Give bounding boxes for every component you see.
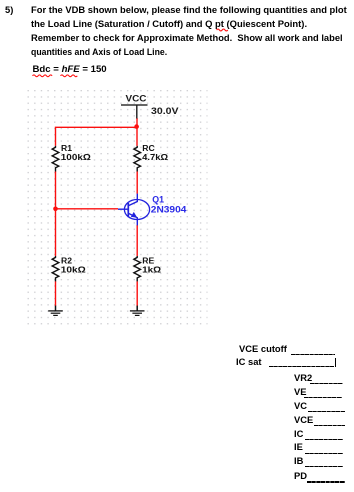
wire: emitter to RE top <box>136 225 138 256</box>
svg-text:2N3904: 2N3904 <box>151 205 187 215</box>
paragraph line 4 <box>31 47 167 58</box>
answer blank: VE <box>294 387 307 398</box>
wire: RC bottom to collector <box>136 171 138 193</box>
answer blank: VCE cutoff <box>239 344 287 355</box>
svg-text:Q1: Q1 <box>152 194 164 204</box>
answer blank: IE <box>294 442 303 453</box>
svg-text:VCC: VCC <box>126 93 148 103</box>
power symbol VCC <box>121 93 148 118</box>
svg-text:30.0V: 30.0V <box>151 106 179 116</box>
answer blank: IB <box>294 456 303 467</box>
wire: VCC stem red part <box>136 118 138 127</box>
label Q1 <box>152 194 164 204</box>
label 2N3904 <box>151 205 187 215</box>
answer blank: PD <box>294 471 307 482</box>
ground (left, under R2) <box>48 306 63 316</box>
ground (right, under RE) <box>130 306 145 316</box>
wire: R1 bottom to R2 top (left column) <box>55 171 57 256</box>
wire: top rail from R1 branch to VCC stem <box>56 127 138 146</box>
answer blank: VC <box>294 401 307 412</box>
squiggle under hFE <box>61 75 78 77</box>
dotted grid background <box>28 90 208 328</box>
wire: VCC stem to RC top <box>136 127 138 146</box>
value label 30.0V <box>151 106 179 116</box>
junction at VCC rail <box>134 124 139 129</box>
answer blank: IC sat with text cursor <box>236 357 262 368</box>
answer blank: VR2 <box>294 373 312 384</box>
wire: R2 bottom to ground <box>55 281 57 306</box>
svg-text:1kΩ: 1kΩ <box>142 264 161 274</box>
svg-text:100kΩ: 100kΩ <box>61 152 91 162</box>
junction node at voltage divider <box>53 207 58 212</box>
resistor R1 <box>52 143 91 172</box>
svg-text:4.7kΩ: 4.7kΩ <box>142 152 168 162</box>
Bdc = hFE = 150 line <box>33 64 107 75</box>
transistor Q1 symbol <box>118 194 150 226</box>
answer blank: VCE <box>294 415 313 426</box>
resistor RC <box>134 143 168 172</box>
problem number 5) <box>5 5 13 16</box>
paragraph line 1 <box>31 5 347 16</box>
resistor R2 <box>52 256 86 282</box>
paragraph line 2 <box>31 19 307 30</box>
paragraph line 3 <box>31 33 343 44</box>
wire: base wire from divider junction to transistor <box>56 208 119 210</box>
squiggle under pt <box>217 29 228 31</box>
wire: RE bottom to ground <box>136 281 138 306</box>
resistor RE <box>134 256 161 282</box>
svg-text:10kΩ: 10kΩ <box>61 264 86 274</box>
answer blank: IC <box>294 429 303 440</box>
